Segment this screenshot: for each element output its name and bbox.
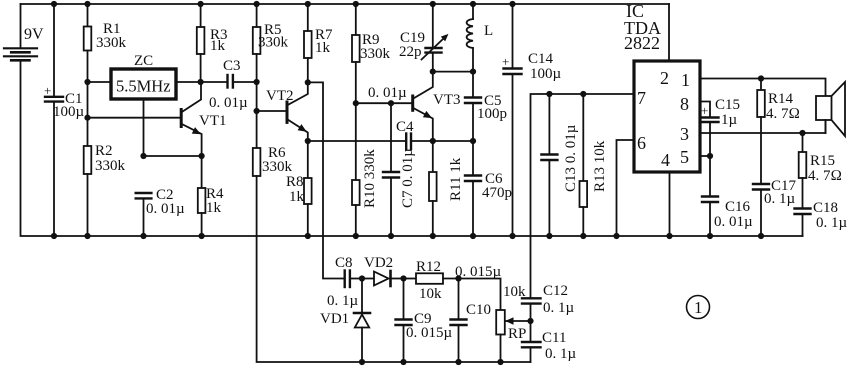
svg-text:1k: 1k bbox=[206, 200, 222, 216]
svg-text:VD2: VD2 bbox=[364, 255, 393, 271]
capacitor C12 bbox=[522, 283, 575, 321]
battery 9V bbox=[4, 4, 44, 60]
wire tank node bbox=[433, 71, 473, 73]
capacitor C16 bbox=[702, 156, 753, 236]
capacitor C11 bbox=[522, 321, 577, 362]
svg-text:330k: 330k bbox=[96, 35, 127, 51]
svg-text:2: 2 bbox=[660, 68, 669, 88]
svg-text:4. 7Ω: 4. 7Ω bbox=[766, 106, 800, 122]
svg-text:R2: R2 bbox=[95, 143, 113, 159]
speaker bbox=[816, 82, 845, 136]
resistor R6 bbox=[253, 111, 293, 236]
svg-text:4: 4 bbox=[661, 150, 670, 170]
svg-text:1k: 1k bbox=[289, 189, 305, 205]
wire IC pin1 output line bbox=[700, 79, 826, 97]
svg-text:1k: 1k bbox=[315, 40, 331, 56]
svg-text:VT2: VT2 bbox=[266, 88, 294, 104]
svg-text:100p: 100p bbox=[477, 106, 507, 122]
capacitor C2 bbox=[136, 187, 185, 236]
svg-text:C3: C3 bbox=[223, 58, 241, 74]
resistor R10 bbox=[352, 103, 378, 236]
capacitor C8 bbox=[327, 255, 362, 309]
svg-text:VT1: VT1 bbox=[199, 113, 227, 129]
svg-text:100µ: 100µ bbox=[530, 66, 562, 82]
wire IC pin2 supply drop bbox=[668, 4, 670, 61]
svg-text:RP: RP bbox=[508, 326, 526, 342]
transistor VT1 bbox=[88, 82, 227, 156]
resistor R7 bbox=[304, 4, 333, 82]
wire R12 output to RP bbox=[459, 279, 501, 311]
svg-text:1k: 1k bbox=[210, 38, 226, 54]
resistor R9 bbox=[352, 4, 391, 103]
svg-text:330k: 330k bbox=[262, 159, 293, 175]
svg-text:VT3: VT3 bbox=[433, 92, 461, 108]
svg-text:C18: C18 bbox=[813, 200, 838, 216]
transistor VT2 bbox=[257, 82, 309, 141]
resistor R11 bbox=[429, 141, 464, 236]
wire VT1 emitter node bbox=[144, 155, 202, 157]
svg-text:C8: C8 bbox=[335, 255, 353, 271]
svg-text:330k: 330k bbox=[360, 46, 391, 62]
svg-text:22p: 22p bbox=[399, 44, 422, 60]
svg-text:8: 8 bbox=[680, 94, 689, 114]
svg-text:0. 1µ: 0. 1µ bbox=[543, 300, 575, 316]
svg-text:R11 1k: R11 1k bbox=[448, 157, 464, 201]
svg-text:0. 1µ: 0. 1µ bbox=[327, 293, 359, 309]
capacitor C18 bbox=[795, 200, 848, 236]
svg-text:C4: C4 bbox=[396, 119, 414, 135]
wire VT3 base line bbox=[356, 102, 412, 104]
resistor R1 bbox=[84, 4, 127, 82]
svg-text:9V: 9V bbox=[24, 26, 44, 43]
resistor R12 bbox=[404, 259, 459, 302]
resistor R5 bbox=[253, 4, 289, 111]
capacitor C4 bbox=[396, 119, 473, 149]
svg-text:R12: R12 bbox=[416, 259, 441, 275]
wire VT2 emitter line with C4 to VT3 emitter bbox=[308, 140, 406, 142]
capacitor C1 bbox=[44, 4, 85, 236]
wire IC pin4 to ground bbox=[669, 172, 671, 236]
svg-text:0. 1µ: 0. 1µ bbox=[816, 215, 848, 231]
diode VD2 bbox=[362, 255, 404, 286]
capacitor C17 bbox=[753, 178, 797, 236]
capacitor C10 bbox=[451, 279, 492, 363]
svg-text:100µ: 100µ bbox=[53, 104, 85, 120]
transistor VT3 bbox=[413, 72, 461, 141]
resistor R15 bbox=[799, 133, 842, 208]
svg-text:0. 1µ: 0. 1µ bbox=[545, 346, 577, 362]
svg-text:C10: C10 bbox=[466, 302, 491, 318]
svg-text:L: L bbox=[484, 23, 493, 39]
resistor R14 bbox=[757, 79, 800, 184]
capacitor C5 bbox=[465, 72, 507, 141]
svg-text:0. 01µ: 0. 01µ bbox=[368, 85, 407, 101]
resistor R4 bbox=[198, 156, 224, 236]
svg-text:VD1: VD1 bbox=[320, 311, 349, 327]
svg-text:R14: R14 bbox=[768, 91, 794, 107]
resistor R13 bbox=[580, 94, 609, 236]
wire IC pin6 to ground bbox=[617, 140, 635, 236]
svg-text:C14: C14 bbox=[528, 51, 554, 67]
capacitor C13 bbox=[541, 94, 579, 236]
svg-text:R10 330k: R10 330k bbox=[362, 149, 378, 208]
svg-text:0. 01µ: 0. 01µ bbox=[146, 201, 185, 217]
svg-text:2822: 2822 bbox=[624, 33, 660, 53]
svg-text:C15: C15 bbox=[715, 97, 740, 113]
capacitor C14 bbox=[502, 4, 562, 236]
svg-text:0. 015µ: 0. 015µ bbox=[406, 325, 453, 341]
capacitor C9 bbox=[396, 279, 453, 363]
svg-text:10k: 10k bbox=[419, 286, 442, 302]
svg-text:0. 01µ: 0. 01µ bbox=[714, 214, 753, 230]
svg-text:C7 0. 01µ: C7 0. 01µ bbox=[400, 148, 416, 208]
svg-text:1: 1 bbox=[681, 70, 690, 90]
figure number circle 1 bbox=[687, 296, 710, 319]
capacitor C7 bbox=[383, 103, 416, 236]
svg-text:1: 1 bbox=[694, 298, 703, 317]
wire top supply rail bbox=[21, 3, 670, 5]
ceramic resonator ZC 5.5MHz bbox=[88, 53, 201, 156]
wire IC pin8 stub bbox=[700, 102, 710, 118]
diode VD1 bbox=[320, 279, 370, 363]
svg-text:C16: C16 bbox=[725, 199, 751, 215]
svg-text:5: 5 bbox=[680, 147, 689, 167]
inductor L bbox=[467, 4, 494, 72]
resistor R2 bbox=[84, 82, 126, 236]
wire VT2 collector to detector tap bbox=[308, 82, 344, 278]
potentiometer RP bbox=[496, 284, 530, 362]
svg-text:5.5MHz: 5.5MHz bbox=[116, 77, 171, 96]
resistor R8 bbox=[286, 141, 312, 236]
svg-text:ZC: ZC bbox=[134, 53, 153, 69]
svg-text:R13 10k: R13 10k bbox=[592, 140, 608, 192]
wire IC pin5 stub bbox=[700, 155, 710, 157]
svg-text:C12: C12 bbox=[543, 283, 568, 299]
svg-text:+: + bbox=[701, 103, 708, 118]
svg-text:330k: 330k bbox=[95, 158, 126, 174]
svg-text:4. 7Ω: 4. 7Ω bbox=[808, 168, 842, 184]
wire lower network ground return bbox=[257, 236, 531, 362]
variable capacitor C19 bbox=[399, 4, 451, 72]
svg-text:+: + bbox=[44, 83, 51, 98]
resistor R3 bbox=[197, 4, 228, 82]
svg-text:C11: C11 bbox=[542, 330, 566, 346]
capacitor C3 bbox=[201, 58, 257, 111]
wire IC pin7 input line bbox=[531, 94, 635, 298]
capacitor C6 bbox=[465, 141, 512, 236]
svg-text:0. 1µ: 0. 1µ bbox=[764, 191, 796, 207]
svg-text:C13 0. 01µ: C13 0. 01µ bbox=[563, 124, 579, 192]
wire IC pin3 output line bbox=[700, 120, 826, 133]
svg-text:330k: 330k bbox=[258, 35, 289, 51]
op-amp IC TDA2822 bbox=[624, 1, 700, 172]
svg-text:3: 3 bbox=[680, 124, 689, 144]
svg-text:0. 01µ: 0. 01µ bbox=[209, 95, 248, 111]
svg-text:7: 7 bbox=[637, 88, 646, 108]
svg-text:+: + bbox=[502, 54, 509, 69]
wire ground rail bbox=[21, 60, 803, 236]
svg-text:R15: R15 bbox=[810, 153, 835, 169]
capacitor C15 bbox=[701, 97, 740, 156]
svg-text:1µ: 1µ bbox=[721, 112, 738, 128]
svg-text:R8: R8 bbox=[286, 174, 304, 190]
svg-text:6: 6 bbox=[637, 133, 646, 153]
svg-text:470p: 470p bbox=[482, 185, 512, 201]
